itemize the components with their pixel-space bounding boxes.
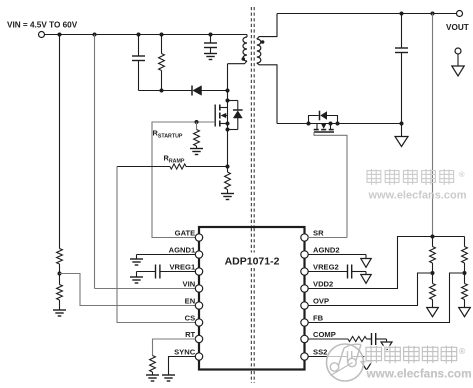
wire VREG2 cap to ground [352,271,366,273]
svg-text:RT: RT [185,330,195,339]
svg-text:RRAMP: RRAMP [164,154,185,165]
wire cap corner to resistor node [139,90,162,92]
wire SR pin [308,237,347,239]
pin FB [301,313,324,326]
svg-text:VREG1: VREG1 [169,262,196,271]
ground bypass cap [204,54,217,60]
junction VIN rail x94 [93,33,97,37]
resistor EN divider lower [57,285,63,301]
junction VOUT sense [431,12,435,16]
ground VREG2 [361,272,371,284]
wire SS2 cap to ground [352,356,367,358]
wire COMP resistor to cap [367,338,372,340]
label ADP1071-2 [225,256,280,268]
pin VIN [183,279,203,292]
ground EN divider [53,310,66,316]
wire EN tap to EN pin [60,274,196,306]
junction R_RAMP switch node [226,165,230,169]
label R_STARTUP [153,129,183,140]
svg-text:SS2: SS2 [313,347,327,356]
ground R_STARTUP [190,146,203,155]
resistor FB upper [462,247,468,264]
pin VREG1 [169,262,202,275]
wire VIN rail to R divider [59,35,61,249]
svg-text:VIN: VIN [183,279,196,288]
capacitor input C1 [132,56,145,61]
wire OVP tap to OVP pin [308,273,433,306]
junction SR mid [329,122,333,126]
wire rail to primary top [246,35,248,38]
wire R_RAMP to CS pin [117,167,196,323]
label R_RAMP [164,154,185,165]
svg-text:OVP: OVP [313,296,329,305]
wire COMP pin [308,338,348,340]
wire AGND2 [308,254,366,256]
junction drain node [226,99,230,103]
resistor snubber R1 [159,54,165,71]
transistor Q1 channel segments [219,105,221,127]
wire VOUT rail [277,13,457,15]
wire Q2 gate to SR pin [314,132,347,238]
wire output cap to SR node [401,53,403,137]
wire rail to bypass cap [210,35,212,44]
wire VDD2 to divider bus [308,237,465,289]
svg-text:www.elecfans.com: www.elecfans.com [368,190,467,202]
svg-text:AGND2: AGND2 [313,245,340,254]
wire FB lower to ground [464,300,466,308]
ground COMP [381,339,392,351]
svg-text:COMP: COMP [313,330,336,339]
phase dot primary [242,57,246,61]
svg-text:GATE: GATE [175,228,196,237]
capacitor COMP [372,333,376,345]
wire diode to switch node [202,90,228,92]
watermark mid text [367,169,467,202]
transistor Q1 body arrow [221,113,228,118]
wire divider to ground [59,300,61,310]
ground FB divider [459,308,471,317]
junction switch node top [226,89,230,93]
resistor EN divider upper [57,249,63,265]
wire SR drain [277,123,402,125]
svg-text:CS: CS [185,313,196,322]
svg-text:VIN = 4.5V TO 60V: VIN = 4.5V TO 60V [7,21,78,30]
capacitor bypass C2 [204,43,217,48]
junction OVP tap [431,271,435,275]
terminal secondary ground [455,48,461,54]
label VIN = 4.5V TO 60V [7,21,78,30]
wire rail to input cap [138,35,140,57]
wire VREG1 to cap [160,271,196,273]
resistor FB lower [462,284,468,300]
resistor COMP [348,336,367,341]
VOUT terminal [457,11,463,17]
pin AGND2 [301,245,340,258]
wire R_RAMP to switch node [186,166,228,168]
wire divider bus corner [464,237,466,247]
pin EN [185,296,203,309]
junction divider bus [431,235,435,239]
phase dot secondary [261,40,265,44]
pin SYNC [174,347,203,360]
capacitor VREG2 [348,265,352,279]
ground RT [146,372,159,381]
wire secondary top elbow [257,14,277,40]
ground SS2 [361,357,372,371]
wire VIN rail [45,34,248,36]
wire VIN rail down x94 [94,35,96,289]
transformer T1 secondary winding [257,39,261,63]
pin VREG2 [301,262,339,275]
junction SR node cap [400,122,404,126]
junction Q1 source [226,122,230,126]
svg-text:VREG2: VREG2 [313,262,339,271]
pin CS [185,313,203,326]
pin COMP [301,330,336,343]
wire switch node vertical [227,91,229,167]
junction EN divider tap [58,272,62,276]
pin AGND1 [169,245,203,258]
wire clamp diode top [228,100,238,102]
wire SS2 pin [308,356,348,358]
ground CS sense resistor [221,190,234,200]
wire VOUT to divider [432,14,434,237]
wire OVP middle [432,263,434,284]
transistor Q1 drain stub [220,107,228,109]
diode clamp D2 [233,110,243,118]
svg-text:www.elecfans.com: www.elecfans.com [366,367,472,381]
capacitor output COUT [395,48,408,53]
ground VREG1 [130,272,143,284]
ground SYNC [162,375,175,381]
transistor Q1 gate bar [214,105,216,127]
junction clamp bottom [226,128,230,132]
svg-text:EN: EN [185,296,196,305]
wire RT pin [153,339,196,356]
wire between divider resistors [59,264,61,285]
junction FB tap [463,271,467,275]
resistor OVP lower [430,284,436,300]
wire snubber node to diode [162,90,193,92]
junction VIN rail x138 [137,33,141,37]
wire VREG2 to cap [308,271,348,273]
ground AGND1 [130,255,143,266]
watermark bottom text [366,346,472,381]
wire FB middle [464,263,466,284]
capacitor SS2 [348,351,352,362]
ground output cap [395,137,408,147]
junction VIN rail x210 [209,33,213,37]
svg-text:SR: SR [313,228,324,237]
transistor Q1 source stub [220,123,228,125]
junction VIN rail x59 [58,33,62,37]
resistor RT [150,356,156,373]
wire bypass cap to ground [210,48,212,54]
pin OVP [301,296,329,309]
junction SR left [307,122,311,126]
wire VREG1 cap to ground [137,271,156,273]
wire rail to snubber resistor [161,35,163,54]
pin GATE [175,228,203,241]
svg-text:FB: FB [313,313,324,322]
pin VDD2 [301,279,333,292]
svg-text:ADP1071-2: ADP1071-2 [225,256,280,268]
junction snubber node [160,89,164,93]
svg-text:RSTARTUP: RSTARTUP [153,129,183,140]
wire SYNC pin [169,357,196,375]
wire OVP lower to ground [432,300,434,308]
junction VIN rail x161 [160,33,164,37]
pin RT [185,330,203,343]
svg-text:®: ® [459,346,466,356]
VIN input terminal [39,32,45,38]
label VOUT [446,23,469,32]
resistor R_RAMP [170,164,186,169]
pin SR [301,228,324,241]
wire input cap down [138,61,140,91]
svg-text:®: ® [459,170,465,179]
wire Q1 gate to GATE pin [152,122,215,238]
svg-text:SYNC: SYNC [174,347,196,356]
wire clamp diode bottom [228,129,238,131]
svg-text:VDD2: VDD2 [313,279,333,288]
ground secondary terminal [452,66,464,76]
diode SR body [309,111,338,124]
wire primary bottom elbow [228,61,248,64]
wire COMP cap to ground [376,338,387,340]
capacitor VREG1 [156,265,160,279]
ground OVP divider [427,308,439,317]
op-amp U1 ADP1071-2 body [199,227,305,370]
resistor R_STARTUP [194,122,200,146]
junction gate Rstartup [195,120,199,124]
wire FB tap to FB pin [308,273,465,323]
ground AGND2 [361,255,371,268]
wire secondary bottom elbow [257,63,277,124]
svg-text:VOUT: VOUT [446,23,469,32]
diode snubber D1 [192,86,202,96]
isolation barrier dashes inside IC [251,228,254,369]
transformer T1 primary winding [243,37,247,61]
watermark logo [327,344,364,381]
transistor Q2 channel [314,124,334,133]
wire to VIN pin [95,288,196,290]
wire divider bus to ROVP [432,237,434,247]
svg-text:AGND1: AGND1 [169,245,196,254]
wire CS node left [117,166,170,168]
junction SR right [336,122,340,126]
wire terminal to ground [457,54,459,66]
isolation barrier dashed line [251,7,254,383]
resistor OVP upper [430,247,436,264]
junction VOUT cap [400,12,404,16]
wire AGND1 [137,254,196,256]
resistor CS sense [225,167,231,190]
pin SS2 [301,347,328,360]
wire VOUT rail to output cap [401,14,403,49]
wire primary return to switch node [227,64,229,91]
wire snubber resistor down [161,71,163,91]
wire clamp diode branch [237,101,239,130]
